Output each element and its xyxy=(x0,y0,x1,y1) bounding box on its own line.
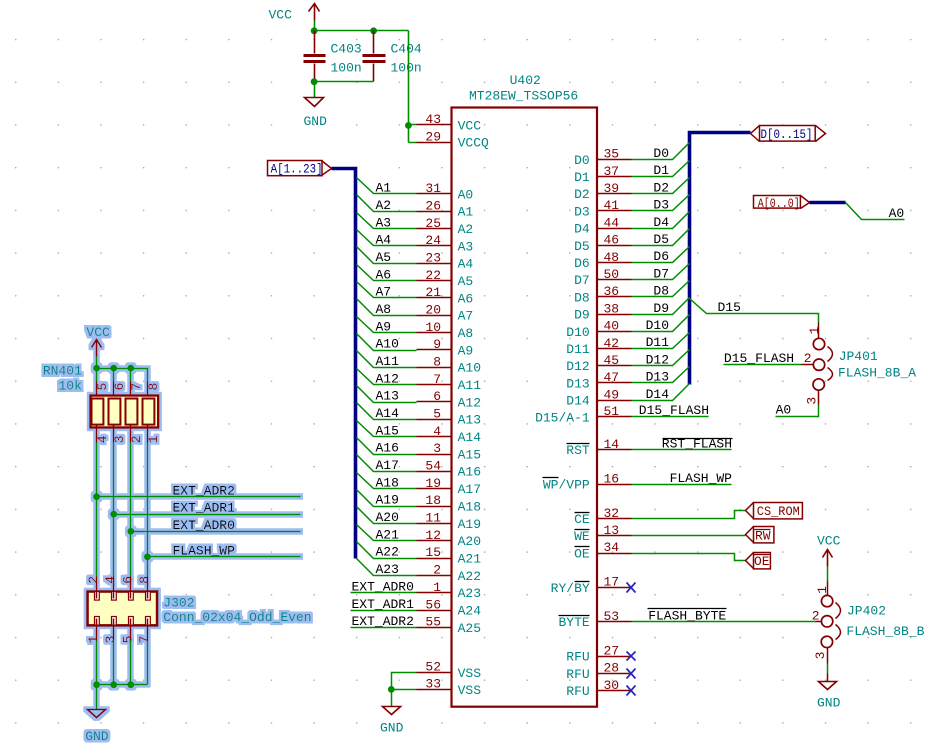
wire A17 bus entry xyxy=(357,455,417,472)
svg-text:27: 27 xyxy=(604,644,620,659)
svg-text:WP/VPP: WP/VPP xyxy=(543,478,590,493)
U402 pin 23 (A4) xyxy=(417,251,474,272)
junction at VSS xyxy=(388,686,395,693)
power flag VCC (top) xyxy=(269,4,320,31)
wire D13 bus entry xyxy=(632,367,690,383)
global label RW xyxy=(746,527,774,544)
svg-text:FLASH_WP: FLASH_WP xyxy=(173,543,236,558)
svg-text:18: 18 xyxy=(425,493,441,508)
svg-text:FLASH_8B_B: FLASH_8B_B xyxy=(846,624,924,639)
wire D3 bus entry xyxy=(632,195,690,211)
svg-text:5: 5 xyxy=(433,407,441,422)
svg-text:42: 42 xyxy=(604,336,620,351)
wire A20 bus entry xyxy=(357,507,417,524)
svg-text:1: 1 xyxy=(86,635,101,643)
svg-text:EXT_ADR0: EXT_ADR0 xyxy=(173,518,235,533)
svg-text:J302: J302 xyxy=(163,596,194,611)
junction at C403 bottom xyxy=(311,78,318,85)
svg-text:D0: D0 xyxy=(653,146,669,161)
U402 pin 16 (WP/VPP) xyxy=(543,471,632,492)
wire A6 bus entry xyxy=(357,265,417,281)
wire VSS pins to ground xyxy=(392,673,417,707)
wire A9 bus entry xyxy=(357,317,417,333)
svg-text:A[1..23]: A[1..23] xyxy=(271,162,323,177)
svg-text:GND: GND xyxy=(304,114,328,129)
U402 pin 29 (VCCQ) xyxy=(417,129,490,150)
U402 pin 24 (A3) xyxy=(417,233,474,254)
svg-text:24: 24 xyxy=(425,233,441,248)
U402 pin 47 (D13) xyxy=(566,370,631,391)
U402 pin 28 (RFU) xyxy=(566,661,631,682)
svg-text:36: 36 xyxy=(604,284,620,299)
connector J302 Conn_02x04_Odd_Even xyxy=(86,576,311,644)
wire EXT_ADR2 tap xyxy=(97,496,301,498)
U402 pin 17 (RY/BY) xyxy=(551,575,632,596)
svg-text:37: 37 xyxy=(604,164,620,179)
svg-text:OE: OE xyxy=(754,554,770,569)
U402 pin 15 (A21) xyxy=(417,545,482,566)
svg-text:A21: A21 xyxy=(376,527,400,542)
svg-text:D12: D12 xyxy=(646,352,669,367)
U402 pin 26 (A1) xyxy=(417,198,474,219)
wire A19 bus entry xyxy=(357,490,417,507)
svg-text:RW: RW xyxy=(755,528,771,543)
wire VCC to RN401 pins xyxy=(97,357,148,382)
U402 pin 45 (D12) xyxy=(566,353,631,374)
ground GND (below U402) xyxy=(380,707,404,736)
svg-text:38: 38 xyxy=(604,301,620,316)
svg-text:A3: A3 xyxy=(458,239,474,254)
wire D15_FLASH from pin 51 xyxy=(632,416,709,418)
svg-text:RY/BY: RY/BY xyxy=(551,581,590,596)
bus D[0..15] vertical xyxy=(690,133,751,385)
svg-text:14: 14 xyxy=(604,437,620,452)
svg-text:7: 7 xyxy=(129,383,144,391)
U402 pin 48 (D6) xyxy=(574,250,631,271)
svg-text:23: 23 xyxy=(425,251,441,266)
U402 pin 38 (D9) xyxy=(574,301,631,322)
U402 pin 37 (D1) xyxy=(574,164,631,185)
svg-text:19: 19 xyxy=(425,476,441,491)
svg-text:RST: RST xyxy=(566,443,590,458)
wire EXT_ADR2 to U402 xyxy=(351,627,417,629)
junction FLASH_WP xyxy=(144,553,151,560)
svg-text:3: 3 xyxy=(805,397,820,405)
svg-text:A2: A2 xyxy=(376,198,392,213)
svg-text:VCCQ: VCCQ xyxy=(458,136,489,151)
wire A18 bus entry xyxy=(357,473,417,489)
wire D10 bus entry xyxy=(632,315,690,332)
wire D1 bus entry xyxy=(632,161,690,177)
svg-text:A11: A11 xyxy=(376,354,400,369)
U402 pin 41 (D3) xyxy=(574,198,631,219)
U402 pin 25 (A2) xyxy=(417,216,474,237)
svg-text:A19: A19 xyxy=(376,493,399,508)
svg-text:EXT_ADR1: EXT_ADR1 xyxy=(173,501,236,516)
svg-text:31: 31 xyxy=(425,181,441,196)
U402 pin 20 (A7) xyxy=(417,303,474,324)
capacitor C403 xyxy=(304,31,362,82)
svg-text:VSS: VSS xyxy=(458,666,482,681)
wire D15_FLASH to JP401 pin 2 xyxy=(724,364,802,366)
svg-text:49: 49 xyxy=(604,387,620,402)
wire A3 bus entry xyxy=(357,213,417,229)
svg-text:30: 30 xyxy=(604,678,620,693)
svg-text:6: 6 xyxy=(120,576,135,584)
svg-text:FLASH_BYTE: FLASH_BYTE xyxy=(648,608,726,623)
svg-text:D3: D3 xyxy=(574,204,590,219)
svg-text:A3: A3 xyxy=(376,215,392,230)
svg-text:25: 25 xyxy=(425,216,441,231)
U402 pin 1 (A23) xyxy=(417,580,482,601)
svg-text:D7: D7 xyxy=(574,273,590,288)
U402 pin 12 (A20) xyxy=(417,528,482,549)
svg-text:6: 6 xyxy=(433,389,441,404)
svg-text:A5: A5 xyxy=(458,274,474,289)
svg-text:A9: A9 xyxy=(458,343,474,358)
wire A11 bus entry xyxy=(357,351,417,368)
svg-text:D3: D3 xyxy=(653,198,669,213)
svg-text:D8: D8 xyxy=(574,290,590,305)
U402 pin 21 (A6) xyxy=(417,285,474,306)
wire D5 bus entry xyxy=(632,229,690,246)
wire D15 from bus to JP401 xyxy=(690,299,819,323)
svg-text:A10: A10 xyxy=(376,337,399,352)
junction RN401 pin 6 xyxy=(110,365,117,372)
jumper JP401 FLASH_8B_A xyxy=(802,323,917,405)
svg-text:4: 4 xyxy=(95,435,110,443)
svg-text:D13: D13 xyxy=(646,370,669,385)
svg-text:A22: A22 xyxy=(376,545,399,560)
svg-text:A14: A14 xyxy=(458,430,482,445)
junction EXT_ADR1 xyxy=(110,511,117,518)
svg-text:D2: D2 xyxy=(653,180,669,195)
svg-text:A22: A22 xyxy=(458,569,481,584)
global label D[0..15] xyxy=(751,126,826,143)
svg-text:Conn_02x04_Odd_Even: Conn_02x04_Odd_Even xyxy=(163,610,311,625)
svg-text:VCC: VCC xyxy=(269,8,293,23)
svg-text:A23: A23 xyxy=(376,562,399,577)
svg-text:A12: A12 xyxy=(458,395,481,410)
svg-text:A12: A12 xyxy=(376,371,399,386)
svg-text:A8: A8 xyxy=(458,326,474,341)
ground GND (J302) xyxy=(85,685,109,745)
U402 pin 9 (A9) xyxy=(417,337,474,358)
svg-text:100n: 100n xyxy=(391,61,422,76)
U402 pin 13 (WE) xyxy=(574,523,631,544)
U402 pin 46 (D5) xyxy=(574,233,631,254)
junction RN401 pin 5 xyxy=(93,365,100,372)
wire A15 bus entry xyxy=(357,421,417,437)
svg-text:A17: A17 xyxy=(376,458,399,473)
U402 pin 39 (D2) xyxy=(574,181,631,202)
svg-text:A7: A7 xyxy=(458,309,474,324)
svg-text:D15: D15 xyxy=(718,300,741,315)
svg-text:33: 33 xyxy=(425,677,441,692)
svg-text:39: 39 xyxy=(604,181,620,196)
svg-text:A8: A8 xyxy=(376,302,392,317)
U402 pin 42 (D11) xyxy=(566,336,631,357)
svg-text:17: 17 xyxy=(604,575,620,590)
junction GND rail 2 xyxy=(110,681,117,688)
svg-text:1: 1 xyxy=(146,435,161,443)
svg-text:A9: A9 xyxy=(376,319,392,334)
wire A0 from bus xyxy=(846,203,905,220)
global label A[0..0] xyxy=(754,196,810,211)
svg-text:D1: D1 xyxy=(574,170,590,185)
global label A[1..23] xyxy=(268,161,332,177)
svg-text:40: 40 xyxy=(604,319,620,334)
svg-text:13: 13 xyxy=(604,523,620,538)
U402 pin 40 (D10) xyxy=(566,319,631,340)
svg-text:A15: A15 xyxy=(376,423,399,438)
wire D14 bus entry xyxy=(632,384,690,401)
svg-text:4: 4 xyxy=(103,576,118,584)
svg-text:WE: WE xyxy=(574,529,590,544)
svg-text:D11: D11 xyxy=(646,335,670,350)
svg-text:D8: D8 xyxy=(653,284,669,299)
svg-text:RN401: RN401 xyxy=(43,363,82,378)
svg-text:VCC: VCC xyxy=(86,325,110,340)
svg-text:54: 54 xyxy=(425,459,441,474)
no-connect pin 28 xyxy=(627,669,636,679)
svg-text:7: 7 xyxy=(433,372,441,387)
svg-text:OE: OE xyxy=(574,546,590,561)
svg-text:CS_ROM: CS_ROM xyxy=(757,504,800,519)
svg-text:GND: GND xyxy=(380,721,404,736)
svg-text:A15: A15 xyxy=(458,447,481,462)
U402 pin 55 (A25) xyxy=(417,615,482,636)
U402 pin 52 (VSS) xyxy=(417,660,482,681)
svg-text:44: 44 xyxy=(604,215,620,230)
wire VCC to JP402 pin 1 xyxy=(827,567,829,582)
svg-text:D10: D10 xyxy=(566,325,589,340)
U402 pin 49 (D14) xyxy=(566,387,631,408)
U402 pin 31 (A0) xyxy=(417,181,474,202)
svg-text:5: 5 xyxy=(95,383,110,391)
svg-text:A7: A7 xyxy=(376,285,392,300)
svg-text:D4: D4 xyxy=(653,215,669,230)
U402 pin 51 (D15/A-1) xyxy=(535,404,631,425)
capacitor C404 xyxy=(363,31,422,82)
svg-text:34: 34 xyxy=(604,540,620,555)
label RST_FLASH xyxy=(662,437,733,452)
svg-text:26: 26 xyxy=(425,198,441,213)
svg-text:C403: C403 xyxy=(331,42,362,57)
svg-text:A21: A21 xyxy=(458,551,482,566)
svg-text:6: 6 xyxy=(112,383,127,391)
svg-text:D9: D9 xyxy=(574,308,590,323)
U402 pin 33 (VSS) xyxy=(417,677,482,698)
svg-text:A[0..0]: A[0..0] xyxy=(758,196,800,211)
svg-text:1: 1 xyxy=(433,580,441,595)
wire FLASH_BYTE to JP402 xyxy=(632,621,816,623)
svg-text:FLASH_WP: FLASH_WP xyxy=(670,471,733,486)
svg-text:D2: D2 xyxy=(574,187,590,202)
svg-text:2: 2 xyxy=(812,608,820,623)
wire D0 bus entry xyxy=(632,143,690,160)
svg-text:D1: D1 xyxy=(653,163,669,178)
svg-text:2: 2 xyxy=(804,351,812,366)
svg-text:VSS: VSS xyxy=(458,683,482,698)
global label OE xyxy=(746,553,771,570)
svg-text:50: 50 xyxy=(604,267,620,282)
bus A[1..23] vertical xyxy=(332,169,356,559)
U402 pin 11 (A19) xyxy=(417,511,482,532)
svg-text:2: 2 xyxy=(129,435,144,443)
svg-text:RFU: RFU xyxy=(566,667,589,682)
svg-text:A5: A5 xyxy=(376,250,392,265)
U402 pin 10 (A8) xyxy=(417,320,474,341)
svg-text:D6: D6 xyxy=(653,249,669,264)
svg-text:D4: D4 xyxy=(574,222,590,237)
U402 pin 50 (D7) xyxy=(574,267,631,288)
svg-text:A4: A4 xyxy=(376,233,392,248)
wire A10 bus entry xyxy=(357,334,417,351)
svg-text:9: 9 xyxy=(433,337,441,352)
svg-text:RFU: RFU xyxy=(566,684,589,699)
svg-text:51: 51 xyxy=(604,404,620,419)
svg-text:D14: D14 xyxy=(566,394,590,409)
wire D7 bus entry xyxy=(632,264,690,280)
wire A7 bus entry xyxy=(357,282,417,298)
U402 pin 2 (A22) xyxy=(417,563,482,584)
wire D9 bus entry xyxy=(632,298,690,315)
svg-text:32: 32 xyxy=(604,506,620,521)
svg-text:D11: D11 xyxy=(566,342,590,357)
wire RN401 pin 4 to J302 xyxy=(96,443,98,577)
wire J302 pins to GND rail xyxy=(97,641,148,685)
wire A4 bus entry xyxy=(357,230,417,246)
svg-text:47: 47 xyxy=(604,370,620,385)
wire C404 bottom to C403 bottom xyxy=(315,81,374,83)
svg-text:8: 8 xyxy=(146,383,161,391)
svg-text:EXT_ADR2: EXT_ADR2 xyxy=(352,614,414,629)
U402 pin 22 (A5) xyxy=(417,268,474,289)
svg-text:15: 15 xyxy=(425,545,441,560)
U402 pin 3 (A15) xyxy=(417,441,482,462)
svg-text:A25: A25 xyxy=(458,621,481,636)
svg-text:C404: C404 xyxy=(391,42,422,57)
svg-text:56: 56 xyxy=(425,597,441,612)
svg-text:BYTE: BYTE xyxy=(558,615,589,630)
global label CS_ROM xyxy=(746,503,803,520)
svg-text:VCC: VCC xyxy=(458,118,482,133)
wire D2 bus entry xyxy=(632,178,690,194)
U402 pin 32 (CE) xyxy=(574,506,631,527)
svg-text:EXT_ADR0: EXT_ADR0 xyxy=(352,579,414,594)
svg-text:D13: D13 xyxy=(566,376,589,391)
svg-text:D0: D0 xyxy=(574,153,590,168)
wire RN401 pin 2 to J302 xyxy=(130,443,132,577)
svg-text:8: 8 xyxy=(137,576,152,584)
svg-text:JP401: JP401 xyxy=(839,349,878,364)
svg-text:8: 8 xyxy=(433,355,441,370)
svg-text:A13: A13 xyxy=(458,413,481,428)
svg-text:A16: A16 xyxy=(376,441,399,456)
U402 pin 56 (A24) xyxy=(417,597,482,618)
svg-text:52: 52 xyxy=(425,660,441,675)
U402 pin 6 (A12) xyxy=(417,389,482,410)
svg-text:28: 28 xyxy=(604,661,620,676)
wire RN401 pin 3 to J302 xyxy=(113,443,115,577)
svg-text:12: 12 xyxy=(425,528,441,543)
no-connect pin 27 xyxy=(627,652,636,661)
jumper JP402 FLASH_8B_B xyxy=(812,582,925,664)
wire D6 bus entry xyxy=(632,247,690,263)
svg-text:10k: 10k xyxy=(58,378,82,393)
svg-text:A1: A1 xyxy=(458,205,474,220)
wire VCC rail down to U402 VCC/VCCQ xyxy=(409,31,417,143)
svg-text:A23: A23 xyxy=(458,586,481,601)
wire RW xyxy=(632,535,746,537)
U402 pin 54 (A16) xyxy=(417,459,482,480)
U402 pin 36 (D8) xyxy=(574,284,631,305)
wire D12 bus entry xyxy=(632,350,690,366)
junction at U402 VCC pin xyxy=(405,122,412,129)
wire A23 bus entry xyxy=(357,559,417,576)
svg-text:RFU: RFU xyxy=(566,650,589,665)
svg-text:D5: D5 xyxy=(574,239,590,254)
wire FLASH_WP xyxy=(632,484,732,486)
svg-text:A18: A18 xyxy=(376,475,399,490)
svg-text:7: 7 xyxy=(137,636,152,644)
svg-text:A16: A16 xyxy=(458,465,481,480)
svg-text:3: 3 xyxy=(813,652,828,660)
svg-text:D6: D6 xyxy=(574,256,590,271)
no-connect pin 30 xyxy=(627,686,636,696)
U402 pin 8 (A10) xyxy=(417,355,482,376)
wire A13 bus entry xyxy=(357,386,417,403)
U402 pin 43 (VCC) xyxy=(417,112,482,133)
svg-text:D14: D14 xyxy=(646,387,670,402)
svg-text:11: 11 xyxy=(425,511,441,526)
junction EXT_ADR0 xyxy=(127,528,134,535)
svg-text:A11: A11 xyxy=(458,378,482,393)
svg-text:A19: A19 xyxy=(458,517,481,532)
svg-text:A0: A0 xyxy=(889,206,905,221)
svg-text:3: 3 xyxy=(103,636,118,644)
svg-text:20: 20 xyxy=(425,303,441,318)
wire EXT_ADR0 tap xyxy=(131,531,301,533)
wire A8 bus entry xyxy=(357,299,417,316)
svg-text:55: 55 xyxy=(425,615,441,630)
wire VCC rail to capacitors xyxy=(315,30,409,32)
svg-text:A2: A2 xyxy=(458,222,474,237)
svg-text:A6: A6 xyxy=(458,291,474,306)
wire A1 bus entry xyxy=(357,178,417,194)
U402 pin 35 (D0) xyxy=(574,147,631,168)
svg-text:D10: D10 xyxy=(646,318,669,333)
junction RN401 pin 7 xyxy=(127,365,134,372)
svg-text:A0: A0 xyxy=(776,403,792,418)
svg-text:48: 48 xyxy=(604,250,620,265)
svg-text:GND: GND xyxy=(85,729,109,744)
svg-text:A17: A17 xyxy=(458,482,481,497)
svg-text:16: 16 xyxy=(604,471,620,486)
svg-text:GND: GND xyxy=(817,696,841,711)
svg-text:U402: U402 xyxy=(510,73,541,88)
resistor network RN401 10k xyxy=(43,363,161,443)
svg-text:4: 4 xyxy=(433,424,441,439)
wire GND rail xyxy=(97,684,148,686)
U402 pin 30 (RFU) xyxy=(566,678,631,699)
wire D4 bus entry xyxy=(632,212,690,229)
wire D8 bus entry xyxy=(632,281,690,297)
svg-text:A1: A1 xyxy=(376,181,392,196)
wire EXT_ADR1 to U402 xyxy=(351,610,417,612)
U402 pin 4 (A14) xyxy=(417,424,482,445)
